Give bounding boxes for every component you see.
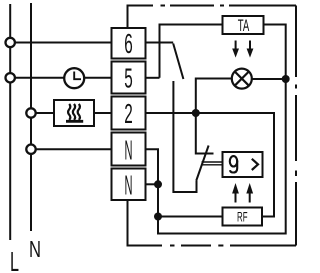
wire terminal 2 to right, down, to RF right side xyxy=(147,113,275,217)
svg-text:L: L xyxy=(10,246,19,273)
junction dot lamp / right edge xyxy=(282,75,290,83)
TA arrow 2 xyxy=(249,41,251,51)
terminal circle N-N xyxy=(26,145,35,154)
wire heater to terminal 2 xyxy=(94,112,111,114)
wire N2 stub xyxy=(147,183,159,185)
wire clock to terminal 5 xyxy=(83,77,110,79)
lamp feed corner: horizontal to lamp, vertical down to terminal 2 net, contact foot xyxy=(196,79,232,154)
TA arrow 1 xyxy=(235,41,237,51)
wire terminal 5 stub xyxy=(147,77,160,79)
terminal block cell N2 xyxy=(112,169,146,201)
svg-text:5: 5 xyxy=(124,63,133,94)
junction dot N riser / RF xyxy=(154,213,162,221)
dash-dot enclosure bottom edge xyxy=(128,245,297,247)
wire N to terminal N xyxy=(31,148,111,150)
terminal block cell N1 xyxy=(112,133,146,166)
label theta (drawn) xyxy=(230,156,237,172)
dash-dot enclosure left edge lower segment xyxy=(127,200,129,247)
wire N riser to RF left xyxy=(158,216,223,218)
clock (time switch) symbol xyxy=(64,68,84,88)
wire lamp to right edge xyxy=(252,78,286,80)
dash-dot enclosure top edge xyxy=(128,5,297,7)
terminal circle N-heater xyxy=(26,108,35,117)
thermostat linkage double line xyxy=(202,161,223,163)
thermostat blade xyxy=(196,146,208,181)
terminal circle L-5 xyxy=(6,73,15,82)
switch blade (upper switch, open) xyxy=(173,44,183,80)
terminal circle L-6 xyxy=(6,38,15,47)
heater base bar xyxy=(66,120,83,123)
svg-text:2: 2 xyxy=(124,98,133,129)
wire L supply vertical line xyxy=(9,4,11,240)
junction dot lamp feed / terminal 2 wire xyxy=(192,109,200,117)
thermostat greater-than symbol xyxy=(252,159,258,170)
wire L to terminal 6 xyxy=(10,42,111,44)
lamp symbol xyxy=(232,69,252,89)
wire TA to right edge, down right edge, bottom edge, N riser up to N1 xyxy=(147,25,286,234)
clock hands xyxy=(74,72,81,80)
svg-text:6: 6 xyxy=(124,28,133,59)
wire N to heater xyxy=(31,112,54,114)
terminal block cell 5 xyxy=(112,62,146,94)
wire N supply vertical line xyxy=(30,3,32,231)
thermostat arrow 1 xyxy=(235,192,237,203)
wire L to clock xyxy=(10,77,65,79)
terminal block cell 6 xyxy=(112,28,146,59)
heater (floor heating) box xyxy=(54,100,94,126)
svg-text:N: N xyxy=(125,169,133,200)
thermostat box xyxy=(223,152,263,177)
terminal block cell 2 xyxy=(112,97,146,130)
heater wavy line 1 xyxy=(68,104,70,120)
svg-text:N: N xyxy=(29,236,41,262)
wire terminal 6 to switch contact xyxy=(147,42,174,44)
svg-text:TA: TA xyxy=(238,17,250,35)
RF box xyxy=(223,208,263,226)
TA box xyxy=(223,16,264,34)
inner circuit: terminal 5 riser to top edge and wire to TA xyxy=(160,25,223,78)
switch pole down, across, up to thermostat blade pivot xyxy=(173,81,196,192)
thermostat arrow 2 xyxy=(249,192,251,203)
svg-text:N: N xyxy=(125,134,133,165)
dash-dot enclosure left edge upper segment xyxy=(127,5,129,28)
heater wavy line 3 xyxy=(78,104,80,120)
svg-text:RF: RF xyxy=(237,210,248,225)
junction dot N riser / N2 xyxy=(154,180,162,188)
dash-dot enclosure right edge xyxy=(295,6,297,246)
heater wavy line 2 xyxy=(73,104,75,120)
